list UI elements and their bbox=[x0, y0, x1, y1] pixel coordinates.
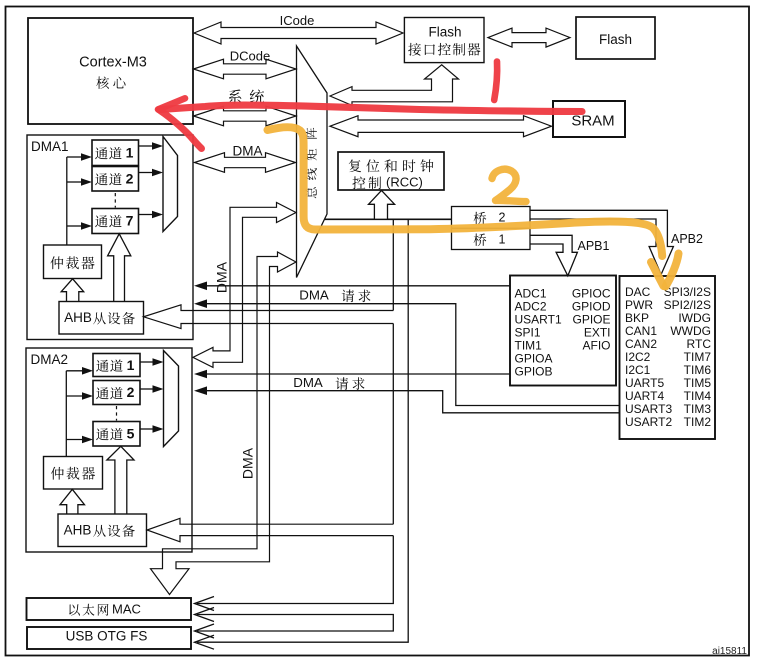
svg-text:AFIO: AFIO bbox=[582, 339, 610, 353]
label bus matrix (vertical) bbox=[305, 128, 316, 139]
wire branch to ch2b bbox=[66, 395, 82, 397]
wire branch to ch1b bbox=[66, 370, 82, 372]
label RCC line1 bbox=[349, 159, 361, 172]
label channel2 bbox=[95, 173, 108, 185]
svg-text:I2C2: I2C2 bbox=[625, 350, 651, 364]
svg-text:Flash: Flash bbox=[599, 32, 632, 47]
box USB OTG FS bbox=[27, 627, 191, 649]
box bridge1 bbox=[452, 228, 531, 249]
svg-text:2: 2 bbox=[126, 171, 134, 187]
svg-text:DMA: DMA bbox=[214, 261, 230, 293]
wire AHB bus line bbox=[325, 218, 452, 220]
svg-text:5: 5 bbox=[127, 426, 135, 442]
dashed line channels 2..7 bbox=[114, 193, 116, 208]
svg-text:DMA: DMA bbox=[233, 144, 263, 159]
label xitong (system) bbox=[228, 89, 241, 103]
wire ch1b to mux bbox=[140, 361, 153, 363]
svg-text:RTC: RTC bbox=[687, 337, 712, 351]
wire AHB vertical V1 middle bbox=[392, 324, 394, 525]
bus path ETH master to matrix (P2) elbow down to ETH MAC bbox=[151, 252, 297, 595]
svg-text:DMA2: DMA2 bbox=[31, 352, 69, 367]
arrow bus to RCC bbox=[369, 190, 395, 219]
svg-text:TIM2: TIM2 bbox=[684, 415, 712, 429]
svg-text:DMA: DMA bbox=[299, 288, 329, 303]
box SRAM bbox=[553, 101, 625, 137]
red marker arrow main line bbox=[159, 105, 582, 111]
svg-text:1: 1 bbox=[126, 145, 134, 161]
svg-text:CAN2: CAN2 bbox=[625, 337, 657, 351]
label channel1 bbox=[95, 147, 108, 159]
svg-text:Cortex-M3: Cortex-M3 bbox=[79, 55, 147, 71]
wire DMA1 trunk bbox=[66, 157, 68, 245]
svg-text:APB2: APB2 bbox=[671, 232, 703, 246]
svg-text:USART3: USART3 bbox=[625, 402, 672, 416]
svg-text:UART5: UART5 bbox=[625, 376, 664, 390]
bus matrix polygon bbox=[297, 46, 328, 278]
svg-text:ai15811: ai15811 bbox=[712, 646, 747, 657]
box arbiter (DMA1) bbox=[44, 245, 102, 279]
wire ch2b to mux bbox=[140, 388, 153, 390]
mux trapezoid DMA2 bbox=[164, 351, 179, 447]
arrowhead into USB upper bbox=[195, 624, 215, 638]
wire AHB vertical V1 lower + to ETH arrow bbox=[197, 536, 393, 604]
wire branch to ch5 bbox=[66, 439, 82, 441]
wire channel1 to mux bbox=[139, 145, 153, 147]
svg-text:TIM7: TIM7 bbox=[684, 350, 712, 364]
svg-text:GPIOE: GPIOE bbox=[572, 312, 610, 326]
box DMA1 controller bbox=[27, 135, 193, 340]
wire AHB vertical V2 + to USB arrow bbox=[197, 219, 408, 642]
red marker arrow barb bbox=[158, 98, 185, 109]
svg-text:DMA: DMA bbox=[240, 447, 256, 479]
bus path DMA1 master to matrix (P1) and down to DMA2 bbox=[193, 203, 296, 368]
svg-text:PWR: PWR bbox=[625, 298, 653, 312]
box RCC reset clock control bbox=[338, 152, 444, 190]
svg-text:EXTI: EXTI bbox=[584, 325, 611, 339]
wire DMA request line1 (APB2 periph to DMA1) bbox=[207, 285, 510, 287]
box AHB slave (DMA2) bbox=[58, 514, 147, 547]
bus arrow into AHB slave DMA1 bbox=[144, 305, 394, 329]
svg-text:1: 1 bbox=[499, 233, 506, 247]
svg-text:WWDG: WWDG bbox=[670, 324, 711, 338]
svg-text:TIM5: TIM5 bbox=[684, 376, 712, 390]
box Ethernet MAC bbox=[27, 598, 192, 620]
wire branch to channel7 bbox=[67, 225, 82, 227]
box APB2 peripherals bbox=[510, 276, 616, 386]
arrowhead into ETH MAC upper bbox=[195, 597, 215, 611]
mux trapezoid DMA1 bbox=[163, 137, 178, 232]
wire branch to channel2 bbox=[67, 181, 82, 183]
svg-text:GPIOB: GPIOB bbox=[515, 365, 553, 379]
svg-text:1: 1 bbox=[127, 357, 135, 373]
box channel1 (DMA2) bbox=[93, 354, 140, 377]
svg-text:SRAM: SRAM bbox=[571, 113, 614, 130]
red marker arrow tail bbox=[160, 111, 202, 149]
svg-text:SPI2/I2S: SPI2/I2S bbox=[664, 298, 711, 312]
yellow marker arrowhead right barb bbox=[666, 254, 679, 287]
label channel1b bbox=[96, 360, 109, 372]
svg-text:UART4: UART4 bbox=[625, 389, 664, 403]
box channel2 (DMA1) bbox=[92, 167, 139, 192]
svg-text:SPI3/I2S: SPI3/I2S bbox=[664, 285, 711, 299]
box flash interface controller bbox=[404, 18, 484, 63]
box channel1 (DMA1) bbox=[92, 140, 139, 166]
svg-text:IWDG: IWDG bbox=[678, 311, 711, 325]
box channel5 (DMA2) bbox=[93, 422, 140, 447]
yellow marker arrowhead left barb bbox=[651, 262, 664, 286]
arrow AHB to channel7 (DMA1) bbox=[108, 234, 131, 302]
label arbiter1 bbox=[50, 256, 63, 269]
wire AHB vertical V1 upper bbox=[392, 219, 394, 310]
svg-text:TIM3: TIM3 bbox=[684, 402, 712, 416]
bus arrow into AHB slave DMA2 bbox=[147, 518, 393, 542]
box bridge2 bbox=[452, 207, 531, 229]
wire ch5 to mux bbox=[140, 428, 153, 430]
svg-text:2: 2 bbox=[127, 384, 135, 400]
box Cortex-M3 core bbox=[28, 18, 193, 124]
wire DMA2 trunk bbox=[65, 371, 67, 457]
wire DMA request line3 (APB2 periph to DMA2) bbox=[207, 373, 510, 375]
arrow DCode bus bbox=[194, 59, 297, 79]
label RCC line2 bbox=[352, 176, 365, 189]
label channel7 bbox=[95, 215, 108, 227]
svg-text:AHB: AHB bbox=[64, 310, 92, 325]
svg-text:DAC: DAC bbox=[625, 285, 651, 299]
arrowhead into ETH MAC lower bbox=[195, 608, 215, 622]
label flash ctrl line2 bbox=[408, 43, 421, 56]
label bridge2 bbox=[474, 212, 487, 225]
arrow busmatrix-SRAM bbox=[330, 116, 552, 137]
label arbiter2 bbox=[51, 467, 64, 480]
yellow marker main path bbox=[268, 127, 663, 256]
svg-text:DMA1: DMA1 bbox=[31, 139, 69, 154]
svg-text:GPIOD: GPIOD bbox=[572, 299, 611, 313]
svg-text:MAC: MAC bbox=[112, 602, 141, 617]
wire branch to channel1 bbox=[67, 156, 82, 158]
svg-text:ADC1: ADC1 bbox=[515, 286, 547, 300]
svg-text:TIM1: TIM1 bbox=[515, 339, 543, 353]
svg-text:DCode: DCode bbox=[230, 49, 270, 64]
arrow ICode bus bbox=[194, 22, 403, 44]
svg-text:GPIOA: GPIOA bbox=[515, 352, 553, 366]
wire DMA request line4 (APB1 periph to DMA2) bbox=[207, 391, 620, 413]
arrowhead into USB lower bbox=[195, 635, 215, 649]
box channel7 (DMA1) bbox=[92, 209, 139, 234]
svg-text:7: 7 bbox=[126, 213, 134, 229]
label bridge1 bbox=[474, 233, 487, 246]
svg-text:ADC2: ADC2 bbox=[515, 299, 547, 313]
box DMA2 controller bbox=[26, 348, 192, 552]
arrow AHB to channel5 (DMA2) bbox=[107, 446, 134, 514]
svg-text:Flash: Flash bbox=[428, 25, 461, 40]
arrow system bus bbox=[194, 106, 297, 126]
svg-text:CAN1: CAN1 bbox=[625, 324, 657, 338]
svg-text:USB OTG FS: USB OTG FS bbox=[66, 629, 148, 644]
arrow DMA bus bbox=[195, 153, 296, 173]
arrow busmatrix to flash controller (elbow) bbox=[330, 65, 459, 106]
svg-text:USART1: USART1 bbox=[515, 312, 562, 326]
red marker stroke 1 (near Flash) bbox=[494, 62, 497, 101]
box AHB slave (DMA1) bbox=[59, 302, 144, 335]
box APB1 peripherals bbox=[620, 276, 716, 439]
wire channel7 to mux bbox=[139, 214, 153, 216]
wire ETH to USB wrap bbox=[197, 615, 393, 632]
svg-text:I2C1: I2C1 bbox=[625, 363, 651, 377]
svg-text:TIM4: TIM4 bbox=[684, 389, 712, 403]
arrow APB2 (bridge2 to APB2 peripherals) bbox=[530, 210, 673, 274]
svg-text:APB1: APB1 bbox=[578, 239, 610, 253]
label channel2b bbox=[96, 387, 109, 399]
dashed line channels 2..5 bbox=[116, 406, 118, 421]
wire channel2 to mux bbox=[139, 172, 153, 174]
svg-text:(RCC): (RCC) bbox=[386, 175, 423, 190]
svg-text:AHB: AHB bbox=[64, 523, 92, 538]
box arbiter (DMA2) bbox=[44, 457, 103, 490]
svg-text:USART2: USART2 bbox=[625, 415, 672, 429]
svg-text:GPIOC: GPIOC bbox=[572, 286, 611, 300]
arrow APB1 (bridge1 to APB1 peripherals) bbox=[530, 235, 577, 275]
arrow AHB to arbiter (DMA2) bbox=[60, 489, 85, 514]
svg-text:ICode: ICode bbox=[280, 13, 315, 28]
svg-text:DMA: DMA bbox=[293, 375, 323, 390]
wire DMA request line2 (APB1 periph to DMA1) bbox=[207, 304, 620, 406]
svg-text:BKP: BKP bbox=[625, 311, 649, 325]
arrow flashctrl-flash bbox=[488, 28, 570, 47]
yellow marker numeral 2 bbox=[492, 169, 526, 201]
label hexin bbox=[96, 76, 109, 89]
box Flash memory bbox=[576, 17, 655, 59]
box channel2 (DMA2) bbox=[93, 381, 140, 405]
label channel5 bbox=[96, 428, 109, 440]
svg-text:SPI1: SPI1 bbox=[515, 325, 541, 339]
arrow AHB to arbiter (DMA1) bbox=[61, 279, 83, 302]
label Ethernet MAC bbox=[69, 604, 80, 615]
svg-text:TIM6: TIM6 bbox=[684, 363, 712, 377]
